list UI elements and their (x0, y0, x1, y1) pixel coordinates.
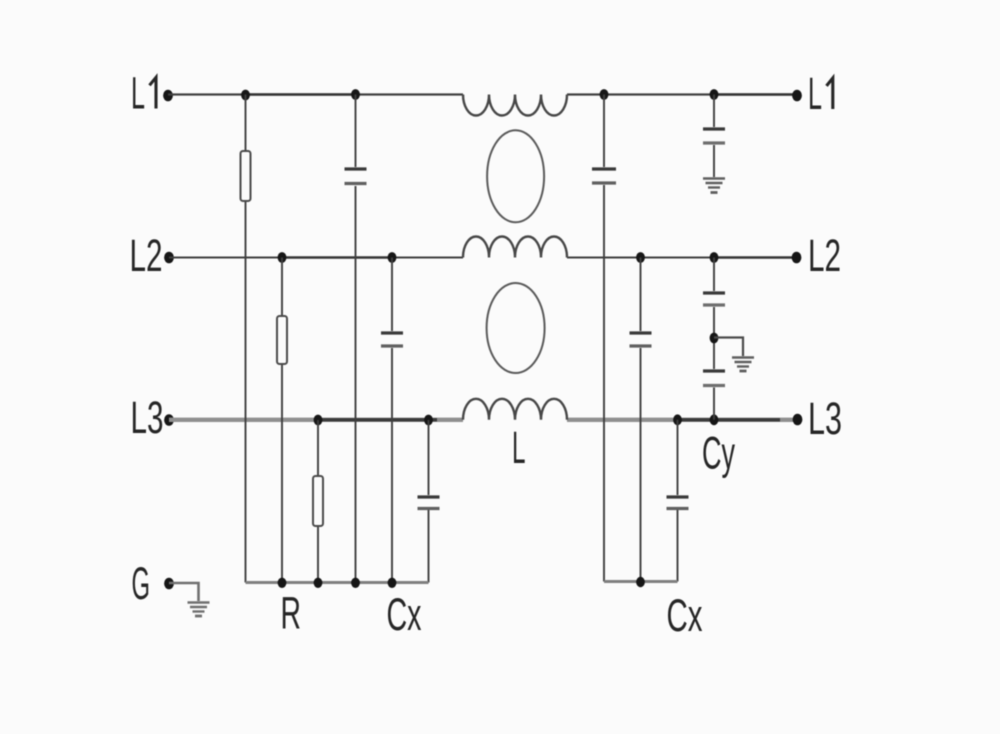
node right bus junction (636, 577, 645, 587)
wire L2 horizontal left (169, 257, 463, 259)
node L1 right terminal (792, 90, 802, 102)
capacitor Cx2 (381, 333, 403, 346)
svg-text:G: G (132, 558, 151, 609)
wire Cy middle to ground (714, 338, 743, 357)
ground symbol at G (188, 603, 210, 617)
svg-text:L2: L2 (808, 230, 841, 281)
node L1 left terminal (163, 90, 173, 102)
wire R2 branch vertical (281, 258, 283, 583)
wire right Cx1 branch vertical (603, 95, 605, 582)
svg-text:Cx: Cx (667, 590, 703, 641)
node L3-Cy junction (710, 414, 719, 425)
svg-text:L2: L2 (130, 230, 163, 281)
node L3-Cx junction (424, 415, 433, 426)
node bus-Cx2 junction (388, 578, 397, 588)
capacitor Cy top (703, 129, 725, 143)
node bus-Cx1 junction (351, 578, 360, 588)
resistor R2 (277, 316, 287, 364)
node bus-R3 junction (314, 578, 323, 588)
wire L3 horizontal right gray (567, 418, 798, 422)
wire L2 horizontal right (567, 257, 796, 259)
node L3-R3 junction (314, 415, 323, 426)
core ellipse lower (487, 283, 545, 373)
node L2-R2 junction (278, 252, 287, 263)
capacitor Cx right-2 (630, 333, 652, 346)
inductor L2 winding (463, 237, 567, 258)
wire Cx3 branch vertical (428, 420, 430, 583)
wire Cy middle branch upper (713, 258, 715, 420)
node L1 right Cx junction (600, 89, 609, 100)
node L2-Cy junction (710, 252, 719, 263)
ground symbol top right (703, 179, 725, 193)
inductor L3 winding (463, 399, 567, 420)
wire R3 branch vertical (317, 420, 319, 583)
wire Cy top branch (713, 95, 715, 178)
svg-text:L: L (512, 422, 526, 473)
wire right Cx3 branch vertical (677, 420, 679, 582)
svg-text:L: L (131, 68, 145, 119)
node L3 right terminal (793, 414, 803, 426)
resistor R1 (241, 151, 251, 201)
capacitor Cx right-3 (667, 497, 689, 509)
wire L3 bold segment (318, 418, 437, 421)
wire L3 bold segment right (678, 418, 780, 421)
node L2 right Cx junction (636, 252, 645, 263)
wire right Cx2 branch vertical (640, 258, 642, 582)
svg-text:L3: L3 (808, 393, 842, 444)
inductor L1 winding (463, 95, 567, 116)
resistor R3 (313, 476, 323, 526)
svg-text:L: L (808, 68, 822, 119)
capacitor Cy middle lower (703, 371, 725, 386)
ground symbol middle right (732, 358, 754, 372)
capacitor Cx3 (418, 497, 440, 509)
node L1-R1 junction (241, 90, 250, 101)
node L3 right Cx junction (673, 414, 682, 425)
node L1-Cx junction (351, 89, 360, 100)
wire G to ground (169, 583, 199, 601)
wire Cx2 branch vertical (391, 258, 393, 583)
wire L1 horizontal right (567, 93, 797, 95)
wire L2 bold segment right (714, 256, 796, 258)
svg-text:Cx: Cx (387, 589, 422, 640)
wire R1 branch vertical (245, 95, 247, 583)
wire L1 bold segment right (714, 93, 797, 95)
node bus-R2 junction (278, 578, 287, 588)
node G terminal (164, 578, 174, 590)
svg-text:L3: L3 (131, 392, 164, 443)
capacitor Cx1 (345, 169, 367, 184)
node L1-Cy junction (710, 89, 719, 100)
capacitor Cx right-1 (592, 169, 616, 183)
capacitor Cy middle upper (703, 293, 725, 305)
node L2 left terminal (164, 252, 174, 264)
core ellipse upper (487, 130, 544, 222)
wire left ground bus (246, 581, 429, 584)
wire L1 bold segment (245, 93, 356, 95)
node L2-Cx junction (388, 252, 397, 263)
svg-text:Cy: Cy (702, 428, 735, 479)
wire L3 horizontal left gray (169, 418, 463, 422)
node L2 right terminal (792, 252, 802, 264)
node Cy middle junction (710, 333, 719, 344)
svg-text:R: R (281, 588, 302, 639)
wire L1 horizontal left (168, 93, 463, 95)
wire L2 bold segment (282, 256, 392, 258)
wire right ground bus (604, 580, 678, 583)
wire Cx1 branch vertical (355, 95, 357, 583)
node L3 left terminal (164, 414, 174, 426)
